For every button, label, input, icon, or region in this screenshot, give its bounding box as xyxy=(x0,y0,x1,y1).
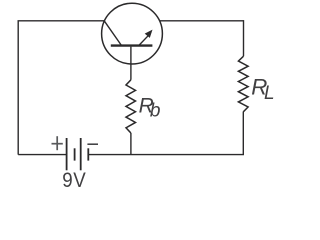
battery B1 plate short right xyxy=(87,148,89,160)
transistor U1 collector lead xyxy=(104,21,121,46)
wire bottom left xyxy=(18,154,66,156)
battery plus sign xyxy=(52,143,63,145)
transistor U1 base bar xyxy=(111,44,153,46)
transistor U1 circle xyxy=(102,3,163,64)
wire Rb to bottom xyxy=(130,133,132,155)
transistor U1 emitter lead xyxy=(139,36,148,46)
battery B1 plate short left xyxy=(74,148,76,160)
battery B1 plate long right xyxy=(80,138,82,170)
wire top left xyxy=(18,20,105,22)
transistor U1 emitter arrowhead xyxy=(145,30,153,38)
battery B1 plate long left xyxy=(66,138,68,170)
resistor RL zigzag xyxy=(238,56,248,112)
battery minus sign xyxy=(87,143,98,145)
wire right lower xyxy=(242,112,244,155)
resistor Rb zigzag xyxy=(126,80,136,133)
svg-text:RL: RL xyxy=(251,74,274,104)
wire bottom right xyxy=(89,154,245,156)
svg-text:9V: 9V xyxy=(62,169,86,192)
wire top right xyxy=(160,20,244,22)
svg-text:Rb: Rb xyxy=(139,95,161,122)
wire left side xyxy=(17,21,19,155)
transistor U1 base lead xyxy=(130,47,132,80)
wire right upper xyxy=(243,20,245,56)
